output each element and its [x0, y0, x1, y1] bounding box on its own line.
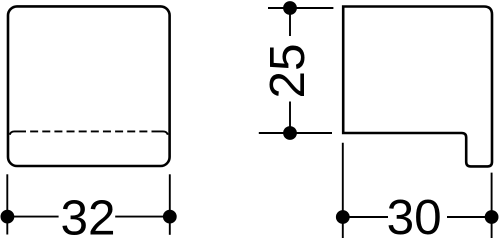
- dimension line 32 right segment: [115, 216, 170, 218]
- extension line left of 32: [6, 174, 8, 234]
- extension line right of 32: [169, 174, 171, 235]
- svg-text:25: 25: [260, 43, 315, 98]
- dimension dot right of 32: [163, 210, 177, 224]
- hidden edge dashed line left end curve: [10, 131, 18, 134]
- dimension line 32 left segment: [7, 216, 58, 218]
- extension line bottom of 25: [259, 132, 332, 134]
- dimension dot right of 30: [485, 210, 499, 224]
- side view outline (profile with hook lip): [343, 7, 492, 167]
- front view outline (32 mm square knob face): [8, 6, 170, 166]
- extension line left of 30: [342, 143, 344, 238]
- dimension line 25 upper segment: [289, 8, 291, 36]
- svg-text:30: 30: [387, 190, 442, 238]
- dimension dot left of 30: [336, 210, 350, 224]
- hidden edge dashed line: [18, 130, 160, 132]
- hidden edge dashed line right end curve: [160, 131, 168, 134]
- dimension line 30 right segment: [447, 216, 492, 218]
- extension line top of 25: [268, 7, 333, 9]
- dimension line 25 lower segment: [289, 102, 291, 134]
- dimension line 30 left segment: [343, 216, 388, 218]
- extension line right of 30: [491, 173, 493, 238]
- dimension dot left of 32: [1, 210, 15, 224]
- svg-text:32: 32: [60, 190, 115, 238]
- dimension dot bottom of 25: [283, 126, 297, 140]
- dimension dot top of 25: [283, 1, 297, 15]
